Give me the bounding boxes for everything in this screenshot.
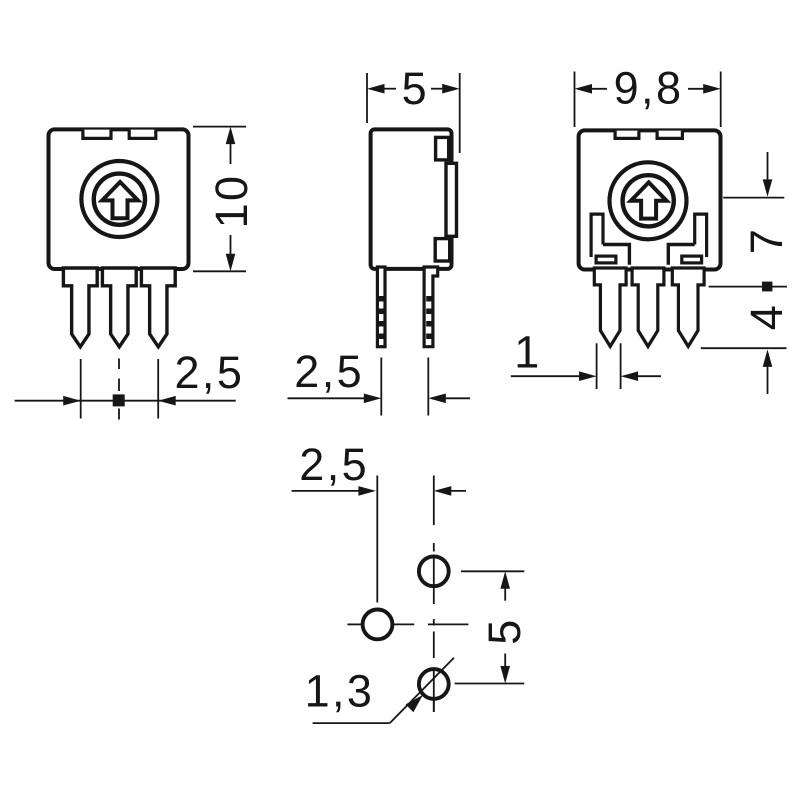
dim 2,5 side ext line right: [427, 358, 429, 416]
svg-text:5: 5: [479, 617, 530, 644]
dim 1 ext line left: [596, 343, 598, 389]
dim 4 middle reference line: [709, 286, 787, 288]
svg-text:4: 4: [741, 303, 792, 330]
svg-text:10: 10: [206, 174, 257, 229]
dim 1 ext line right: [620, 343, 622, 389]
leader arrowhead: [406, 695, 423, 712]
dim 2,5 front dimension line: [15, 400, 236, 402]
front view top notch left: [83, 130, 111, 139]
hole 1 vertical centerline inside: [433, 557, 435, 586]
rear view left clip seat: [596, 256, 616, 263]
side view rotor plate: [446, 163, 457, 236]
svg-text:1: 1: [514, 327, 541, 378]
rear view rotor outer circle: [610, 162, 687, 239]
svg-text:1,3: 1,3: [305, 665, 375, 716]
dim 10 top extension line: [193, 126, 246, 128]
dim 4 lower reference line: [701, 347, 787, 349]
dim 2,5 front left arrow: [63, 396, 80, 406]
dim 4 up arrow: [763, 349, 773, 367]
side view top clip tab: [436, 137, 449, 160]
rear view rotor arrow: [631, 182, 667, 218]
front view leg 1: [63, 268, 97, 347]
dim 5 left arrow: [367, 84, 385, 94]
rear view body: [579, 130, 721, 269]
dim 9,8 line segments: [590, 88, 607, 90]
dim 2,5 front ext line right: [157, 359, 159, 419]
dim 9,8 left arrow: [575, 84, 593, 94]
dim 10 bottom extension line: [193, 270, 246, 272]
rear view leg 1: [594, 268, 626, 346]
rear view left clip prong: [591, 214, 603, 257]
leader horizontal segment: [313, 722, 390, 724]
front view rotor arrow: [102, 182, 138, 218]
front view top notch right: [129, 130, 156, 139]
leader diagonal segment: [390, 658, 454, 723]
dim 2,5 front right arrow: [158, 396, 176, 406]
dim 5 line segments: [382, 88, 396, 90]
hole 3: [419, 669, 449, 699]
pad dim 2,5 dimension line right tail: [450, 490, 466, 492]
hole column centerline segments: [433, 543, 435, 552]
dim 9,8 ext line right: [720, 72, 722, 128]
hole 3 vertical centerline inside: [433, 669, 435, 712]
front view rotor outer circle: [81, 161, 157, 237]
dim 10 lower arrow: [230, 235, 232, 258]
front view leg 3: [141, 268, 175, 347]
side view body: [371, 129, 452, 269]
dim 7 down arrow: [767, 152, 769, 181]
dim 1 dimension line left tail: [511, 375, 581, 377]
dim 2,5 front center square marker: [113, 394, 125, 406]
rear view right clip prong: [695, 214, 707, 257]
dim 2,5 side ext line left: [380, 358, 382, 416]
dim 2,5 side right arrow: [428, 394, 446, 404]
rear view leg 3: [672, 268, 704, 346]
front view body: [49, 129, 189, 269]
svg-text:2,5: 2,5: [299, 439, 369, 490]
front view rotor inner circle: [94, 174, 145, 225]
dim 2,5 side left arrow: [364, 394, 382, 404]
side view pin 1 ribs: [379, 296, 384, 339]
dim 1 dimension line right tail: [637, 375, 662, 377]
dim 7 upper reference line: [723, 197, 784, 199]
rear view top notch left: [615, 131, 639, 139]
dim 9,8 ext line left: [574, 72, 576, 128]
dim 9,8 right arrow: [703, 84, 721, 94]
hole 3 right extension line: [455, 683, 525, 685]
pad dim 5 up arrow: [500, 571, 510, 589]
dim 5 ext line left: [366, 73, 368, 123]
pad ext line right: [433, 476, 435, 526]
svg-text:2,5: 2,5: [294, 346, 364, 397]
pad dim 5 down arrow: [504, 654, 506, 668]
dim 1 right arrow: [621, 371, 639, 381]
hole 2: [363, 610, 393, 640]
dim 2,5 front center dashed line: [118, 359, 120, 370]
dim 10 upper arrow: [230, 140, 232, 164]
dim 2,5 side dimension line left tail: [288, 397, 366, 399]
side view pin 2: [424, 267, 438, 347]
dim 2,5 front ext line left: [80, 359, 82, 419]
rear view leg 2: [632, 268, 664, 346]
rear view right clip bar: [668, 245, 694, 265]
pad ext line left (hole 2 centerline): [376, 476, 378, 603]
svg-text:9,8: 9,8: [614, 63, 684, 114]
dim 4 square marker: [762, 282, 772, 292]
svg-text:2,5: 2,5: [175, 347, 245, 398]
front view leg 2: [102, 268, 136, 347]
rear view rotor inner circle: [623, 175, 674, 226]
hole 1: [419, 556, 449, 586]
side view bottom clip tab: [435, 239, 450, 261]
pad dim 2,5 left arrow: [358, 486, 376, 496]
rear view top notch right: [657, 131, 682, 139]
hole 2 row centerline segments: [347, 623, 362, 625]
rear view left clip bar: [603, 245, 629, 265]
svg-text:5: 5: [402, 63, 429, 114]
hole 1 right extension line: [461, 570, 524, 572]
pad dim 2,5 dimension line left tail: [292, 490, 360, 492]
side view pin 1: [377, 267, 385, 347]
dim 5 right arrow: [442, 84, 460, 94]
dim 5 ext line right: [459, 73, 461, 153]
side view pin 2 ribs: [426, 296, 431, 339]
rear view right clip seat: [682, 256, 702, 263]
dim 2,5 side dimension line right tail: [445, 397, 471, 399]
svg-text:7: 7: [741, 227, 792, 254]
dim 1 left arrow: [579, 371, 597, 381]
pad dim 2,5 right arrow: [434, 486, 452, 496]
